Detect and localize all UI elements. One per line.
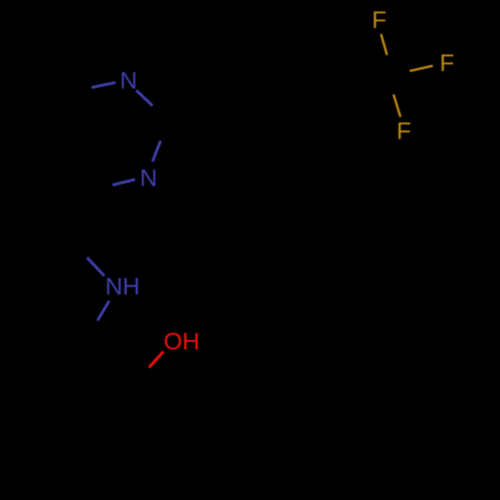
bond C6-N1 half-bond (blue stub left of N1) bbox=[92, 83, 116, 88]
svg-text:N: N bbox=[140, 165, 157, 192]
svg-text:NH: NH bbox=[105, 274, 140, 301]
svg-text:N: N bbox=[120, 68, 137, 95]
bond N1-C2 half-bond (blue stub) bbox=[136, 90, 152, 105]
bond N3-C2 half-bond (blue stub) bbox=[153, 141, 161, 162]
bond F1-C half-bond (gold stub) bbox=[381, 34, 387, 55]
svg-text:F: F bbox=[440, 50, 455, 77]
svg-text:F: F bbox=[396, 118, 411, 145]
bond C-NH half-bond (blue stub above NH) bbox=[87, 258, 104, 276]
bond NH-CH2 half-bond (blue stub below NH) bbox=[98, 301, 110, 321]
bond N3-C4 half-bond (blue stub left of N3) bbox=[113, 180, 136, 186]
svg-text:OH: OH bbox=[164, 329, 200, 356]
svg-text:F: F bbox=[372, 7, 387, 34]
bond F3-C half-bond (gold stub) bbox=[394, 95, 401, 118]
bond O-C half-bond (red stub) bbox=[149, 352, 163, 368]
bond F2-C half-bond (gold stub) bbox=[410, 66, 433, 71]
